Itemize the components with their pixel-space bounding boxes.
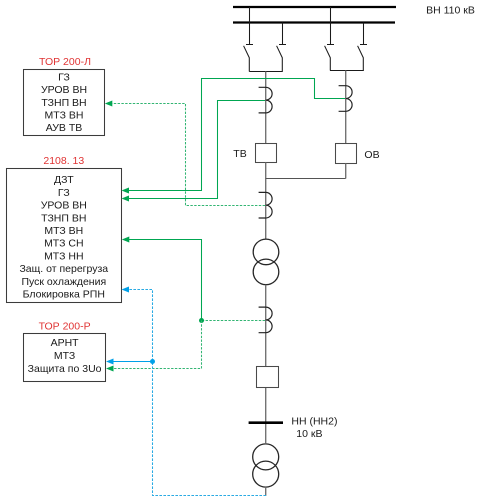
wire ОВ feeder vertical (switch bar to ОВ breaker) [345, 71, 347, 144]
transformer T2 (10 kV aux) upper winding [253, 444, 279, 470]
arrow into 2108.13 (ГЗ) [122, 188, 130, 194]
wire TA1 secondary to relay 2108.13 (УРОВ ВН) [128, 101, 265, 199]
svg-text:МТЗ ВН: МТЗ ВН [44, 225, 83, 237]
busbar I (110 kV, upper) [233, 6, 396, 8]
arrow into 2108.13 (МТЗ СН) [122, 237, 130, 243]
circuit breaker ОВ [336, 144, 357, 164]
disconnector QS3 blade [325, 46, 331, 71]
svg-text:Блокировка РПН: Блокировка РПН [23, 289, 105, 301]
current transformer TA1 on ТВ feeder [259, 87, 273, 113]
wire TA2 secondary to relay 2108.13 (ГЗ) [128, 79, 345, 191]
relay box ТОР 200-Л [24, 70, 105, 136]
svg-text:ТОР 200-Р: ТОР 200-Р [39, 321, 91, 333]
wire tap from busbar I to disconnector QS1 [246, 7, 253, 45]
arrow into ТОР 200-Л [105, 101, 113, 107]
busbar II (110 kV, lower) [233, 21, 395, 23]
svg-text:МТЗ ВН: МТЗ ВН [45, 110, 84, 122]
current transformer TA2 on ОВ feeder [339, 86, 353, 112]
svg-text:МТЗ НН: МТЗ НН [44, 250, 83, 262]
svg-text:ТЗНП ВН: ТЗНП ВН [41, 97, 86, 109]
svg-text:ТЗНП ВН: ТЗНП ВН [41, 212, 86, 224]
svg-text:ГЗ: ГЗ [58, 187, 70, 199]
arrow into 2108.13 (УРОВ ВН) [122, 196, 130, 202]
wire TA3 secondary to relay ТОР 200-Л [112, 104, 265, 206]
relay box 2108.13 [7, 169, 122, 303]
svg-text:МТЗ: МТЗ [54, 350, 75, 362]
svg-text:ГЗ: ГЗ [58, 72, 70, 84]
10 kV bus bar НН [249, 421, 283, 424]
arrow into ТОР 200-Р (Защита по 3Uо) [106, 366, 114, 372]
svg-text:АРНТ: АРНТ [51, 337, 80, 349]
wire ОВ breaker down to tie [345, 164, 347, 179]
junction dot green [199, 318, 204, 323]
svg-text:УРОВ ВН: УРОВ ВН [41, 200, 87, 212]
svg-text:Пуск охлаждения: Пуск охлаждения [21, 276, 106, 288]
wire VT 10 kV to relay 2108.13 (Блокировка РПН) [128, 290, 266, 496]
junction dot blue [150, 359, 155, 364]
circuit breaker ТВ [256, 144, 277, 163]
current transformer TA4 on transformer LV side [259, 307, 273, 333]
svg-text:Защита по 3Uо: Защита по 3Uо [28, 363, 102, 375]
svg-text:ДЗТ: ДЗТ [54, 174, 74, 186]
svg-text:ТВ: ТВ [233, 148, 246, 160]
relay box ТОР 200-Р [24, 334, 106, 382]
svg-text:НН (НН2): НН (НН2) [291, 416, 337, 428]
svg-text:Защ. от перегруза: Защ. от перегруза [19, 263, 108, 275]
arrow into ТОР 200-Р (МТЗ) [106, 359, 114, 365]
wire tap from busbar II to disconnector QS2 [279, 23, 286, 45]
wire ТВ breaker to transformer [265, 163, 267, 240]
circuit breaker НН (10 kV) [257, 367, 279, 388]
disconnector QS1 blade [244, 46, 250, 72]
svg-text:АУВ ТВ: АУВ ТВ [46, 122, 83, 134]
wire ТВ feeder vertical (switch bar to ТВ breaker) [265, 72, 267, 144]
svg-text:10 кВ: 10 кВ [296, 428, 322, 440]
svg-text:ТОР 200-Л: ТОР 200-Л [39, 56, 91, 68]
disconnector QS2 blade [277, 46, 283, 72]
svg-text:МТЗ СН: МТЗ СН [44, 238, 83, 250]
wire tap from busbar II to disconnector QS4 [360, 23, 367, 45]
wire joining QS3/QS4 to ОВ feeder [330, 70, 364, 72]
svg-text:ОВ: ОВ [364, 149, 379, 161]
svg-text:2108. 13: 2108. 13 [43, 155, 84, 167]
wire blue junction to relay ТОР 200-Р (МТЗ) [112, 361, 153, 363]
wire T2 bottom stub [265, 487, 267, 496]
wire transformer LV down to НН breaker [265, 285, 267, 367]
svg-text:УРОВ ВН: УРОВ ВН [41, 84, 87, 96]
transformer T1 LV winding [253, 259, 279, 285]
wire TA4 secondary up to relay 2108.13 (МТЗ СН) [128, 240, 202, 321]
transformer T2 lower winding [253, 461, 279, 487]
wire junction down to relay ТОР 200-Р (Защита по 3Uо) [112, 321, 202, 369]
wire TA4 secondary tap to junction [202, 320, 266, 322]
transformer T1 HV winding [253, 239, 279, 265]
svg-text:ВН 110 кВ: ВН 110 кВ [426, 5, 475, 17]
wire tap from busbar I to disconnector QS3 [327, 7, 334, 45]
current transformer TA3 on transformer HV side [259, 192, 273, 218]
wire tie ОВ feeder to main line [266, 178, 346, 180]
wire НН breaker to 10 kV bus [265, 388, 267, 443]
arrow into 2108.13 (Блокировка РПН) [122, 287, 130, 293]
wire joining QS1/QS2 to ТВ feeder [249, 71, 282, 73]
disconnector QS4 blade [358, 46, 364, 71]
